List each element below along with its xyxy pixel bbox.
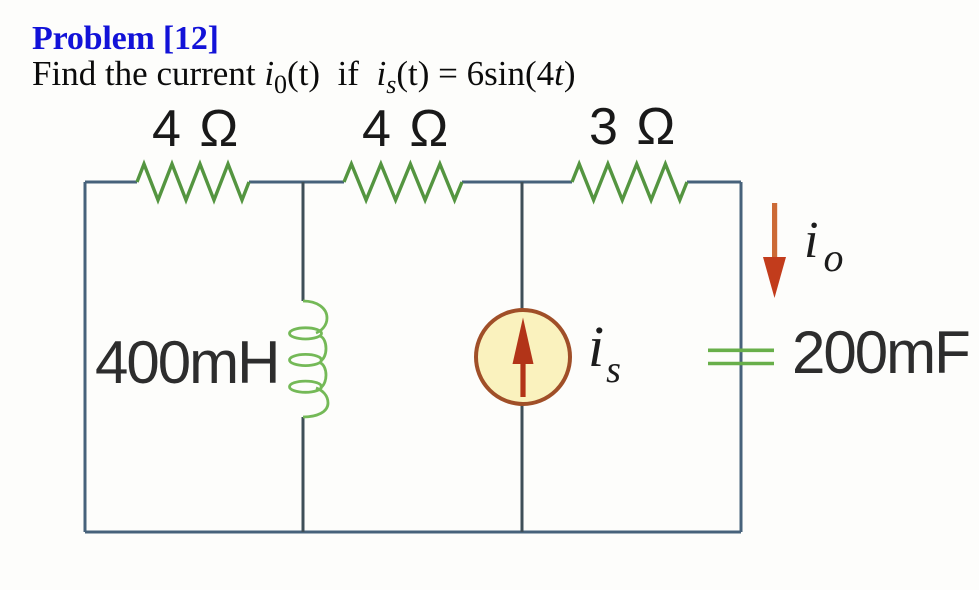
current source arrow [513, 318, 534, 398]
resistor R 3ohm [572, 164, 687, 200]
wire top segment 4 [687, 181, 741, 184]
wire inductor branch top [302, 182, 305, 301]
label 3 ohm [589, 97, 675, 157]
problem statement line [32, 54, 576, 100]
left wire [84, 182, 87, 532]
wire source branch bottom [521, 403, 524, 532]
bottom wire [85, 531, 741, 534]
title "Problem [12]" [32, 20, 219, 58]
label is [588, 313, 621, 392]
resistor R 4ohm left [137, 164, 249, 200]
label 4 ohm left [152, 99, 238, 159]
label 200mF [792, 318, 969, 387]
io arrow [763, 203, 786, 298]
label 4 ohm middle [362, 99, 448, 159]
wire top segment 2 [249, 181, 344, 184]
wire top segment 3 [462, 181, 572, 184]
resistor R 4ohm middle [344, 164, 462, 200]
wire source branch top [521, 182, 524, 311]
wire top segment 1 [85, 181, 137, 184]
current source Is circle [476, 310, 570, 404]
capacitor C 200mF plates [708, 350, 774, 363]
inductor L 400mH coil [290, 301, 329, 417]
label io [804, 211, 843, 281]
label 400mH [95, 328, 278, 397]
wire inductor branch bottom [302, 417, 305, 532]
right wire [740, 182, 743, 532]
